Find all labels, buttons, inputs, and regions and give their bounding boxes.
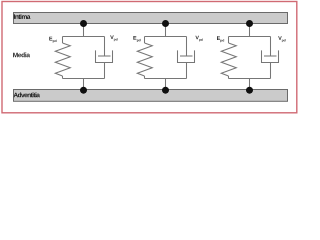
dashpot cup 1 [96,50,113,62]
label E_pd 3 [217,36,224,42]
unit 3 [221,24,278,91]
wire top bar 3 [229,36,271,38]
dashpot piston 1 [98,55,111,57]
dashpot cup 3 [262,50,279,62]
unit 1 [55,24,112,91]
wire dashpot bottom 1 [104,63,106,79]
wire top 3 [249,24,251,37]
label Media [13,52,30,57]
spring E_pd 2 [137,43,152,76]
wire bottom 2 [165,79,167,91]
label V_pd 3 [278,36,285,42]
node bottom 3 [246,87,253,94]
adventitia band [14,90,288,102]
wire bottom bar 2 [145,78,187,80]
wire bottom 3 [249,79,251,91]
label Adventitia [14,92,40,97]
wire spring bottom 1 [62,76,64,79]
node bottom 1 [80,87,87,94]
spring E_pd 1 [55,43,70,76]
wire bottom 1 [83,79,85,91]
wire dashpot bottom 3 [270,63,272,79]
wire spring bottom 3 [228,76,230,79]
wire top 1 [83,24,85,37]
unit 2 [137,24,194,91]
wire spring bottom 2 [144,76,146,79]
node top 2 [162,20,169,27]
label V_pd 1 [110,35,117,41]
wire bottom bar 1 [63,78,105,80]
spring E_pd 3 [221,43,236,76]
dashpot piston 2 [180,55,193,57]
wire spring top 3 [228,37,230,44]
wire spring top 1 [62,37,64,44]
wire top 2 [165,24,167,37]
label E_pd 1 [49,37,56,43]
label V_pd 2 [195,36,202,42]
wire top bar 2 [145,36,187,38]
dashpot piston 3 [264,55,277,57]
wire bottom bar 3 [229,78,271,80]
dashpot rod 2 [186,37,188,57]
intima band [14,13,288,24]
label E_pd 2 [133,36,140,42]
node bottom 2 [162,87,169,94]
dashpot rod 1 [104,37,106,57]
wire dashpot bottom 2 [186,63,188,79]
label Intima [14,14,31,19]
dashpot cup 2 [178,50,195,62]
wire spring top 2 [144,37,146,44]
dashpot rod 3 [270,37,272,57]
node top 3 [246,20,253,27]
node top 1 [80,20,87,27]
wire top bar 1 [63,36,105,38]
